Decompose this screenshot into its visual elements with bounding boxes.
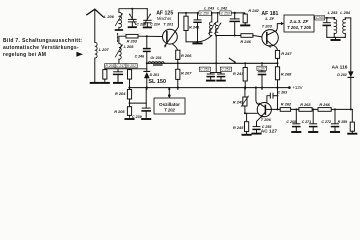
svg-text:2.u.3. ZF: 2.u.3. ZF xyxy=(289,19,309,24)
svg-text:L 208: L 208 xyxy=(124,44,135,49)
svg-text:regelung bei AM: regelung bei AM xyxy=(3,52,46,58)
svg-text:Bild 7. Schaltungsausschnitt:: Bild 7. Schaltungsausschnitt: xyxy=(3,38,82,44)
resistor R268 xyxy=(275,63,292,89)
ground (C252) xyxy=(207,80,215,82)
ground (R245) xyxy=(243,134,251,136)
wire R203 to T201 base xyxy=(138,35,163,37)
svg-text:L 253: L 253 xyxy=(328,10,339,15)
ground (C253 lower) xyxy=(217,80,225,82)
svg-text:C 272: C 272 xyxy=(321,120,331,124)
node L243/rail xyxy=(211,12,213,14)
capacitor C224 (variable) xyxy=(144,9,160,27)
svg-text:R 242: R 242 xyxy=(248,8,259,13)
svg-text:R 204: R 204 xyxy=(115,91,126,96)
svg-text:C 263: C 263 xyxy=(278,91,288,95)
svg-text:AC 127: AC 127 xyxy=(261,129,278,135)
label box R201 xyxy=(105,64,115,69)
resistor R266 xyxy=(318,102,331,111)
svg-text:C 224: C 224 xyxy=(150,23,160,27)
node C263/column xyxy=(277,95,279,97)
inductor L207 xyxy=(95,42,110,58)
node secondary tap xyxy=(215,35,217,37)
capacitor C263 xyxy=(270,91,287,99)
svg-text:R 205: R 205 xyxy=(114,109,125,114)
node C253/base line xyxy=(234,35,236,37)
transistor T201 xyxy=(156,10,177,47)
wire T201 collector up xyxy=(176,13,178,30)
ground (IF output) xyxy=(331,37,339,40)
wire T206 upper-left feed xyxy=(256,88,259,105)
svg-text:T 204, T 205: T 204, T 205 xyxy=(287,25,311,30)
wire tap down to C252/C253 xyxy=(215,36,217,73)
ground (antenna coil) xyxy=(91,82,99,84)
IF transformer L254 xyxy=(340,10,351,37)
capacitor C209 (variable) xyxy=(128,9,146,27)
label box C253b xyxy=(220,67,231,72)
svg-text:R 201: R 201 xyxy=(105,64,114,68)
node column/output rail xyxy=(277,108,279,110)
label box C217 xyxy=(115,64,126,69)
svg-text:R 263: R 263 xyxy=(300,102,311,107)
svg-text:SL 150: SL 150 xyxy=(148,79,166,85)
diode D202 xyxy=(332,64,354,109)
svg-text:C 253: C 253 xyxy=(221,68,230,72)
capacitor C239 xyxy=(132,103,150,119)
wire L208 to C217 xyxy=(118,59,120,63)
wire C252/C253 tops xyxy=(211,72,221,74)
resistor R245 xyxy=(233,113,249,133)
ZF block box xyxy=(284,15,314,32)
wire D201 column xyxy=(146,63,148,71)
node R268/supply rail xyxy=(276,87,278,89)
node base junction xyxy=(146,35,148,37)
junction dot C209/rail xyxy=(131,8,133,10)
svg-text:R 246: R 246 xyxy=(240,39,251,44)
svg-text:C 252: C 252 xyxy=(200,68,209,72)
ground (C255) xyxy=(252,133,260,135)
wire R241 bottom to ground node xyxy=(186,41,198,43)
ground (IF node) xyxy=(193,41,201,44)
IF transformer L253 xyxy=(328,10,339,37)
capacitor C253 top (tank) xyxy=(230,13,239,36)
svg-text:Oszillator: Oszillator xyxy=(159,102,180,107)
wire R202 down to supply rail xyxy=(129,79,131,89)
resistor R263 xyxy=(299,102,312,111)
capacitor C271 xyxy=(302,108,317,130)
resistor R201 xyxy=(103,69,107,82)
svg-text:C 217: C 217 xyxy=(116,64,125,68)
capacitor C265 xyxy=(323,18,330,38)
label box R202 xyxy=(126,64,137,69)
resistor R259 xyxy=(338,109,355,132)
label box C265 xyxy=(315,16,325,20)
svg-text:R 243: R 243 xyxy=(233,71,244,76)
wire R249 to T206 base xyxy=(245,112,257,114)
resistor R207 xyxy=(176,63,193,89)
node R202/rail xyxy=(128,87,130,89)
ground (R242) xyxy=(241,24,249,26)
node emitter/AGC end xyxy=(277,62,279,64)
resistor R262 xyxy=(280,101,292,111)
wire T203 collector xyxy=(276,24,281,31)
svg-text:L 242: L 242 xyxy=(217,6,228,11)
coupling coil Gr201 xyxy=(148,56,164,65)
svg-text:C 250: C 250 xyxy=(200,12,209,16)
transistor T206 xyxy=(257,103,277,135)
svg-text:D 202: D 202 xyxy=(337,73,347,77)
resistor R206 xyxy=(176,50,193,63)
wire bias rail xyxy=(105,68,147,70)
node xyxy=(129,102,131,104)
wire R268 node down to output rail xyxy=(277,88,279,110)
wire oscillator box to rail xyxy=(168,88,170,98)
wire L242 bottom / base line T203 xyxy=(218,35,241,37)
node R249/rail xyxy=(244,87,246,89)
ground (C209) xyxy=(129,26,136,28)
wire T203 emitter xyxy=(272,45,277,50)
IF transformer L242 (variable) xyxy=(215,6,228,36)
wire transformer bottoms xyxy=(327,36,346,38)
wire down to C239 top xyxy=(145,88,147,104)
resistor R202 xyxy=(128,69,132,79)
svg-text:R 247: R 247 xyxy=(281,51,292,56)
node D201/supply rail xyxy=(146,87,148,89)
node C267/supply rail xyxy=(261,87,263,89)
collector rail T201 xyxy=(178,12,244,14)
AGC line xyxy=(147,62,278,64)
capacitor C272 xyxy=(321,108,338,130)
svg-text:C 246: C 246 xyxy=(135,54,146,58)
ground (C271) xyxy=(309,131,317,133)
capacitor C217 xyxy=(114,69,123,82)
IF transformer L243 (variable) xyxy=(204,6,215,36)
resistor R247 xyxy=(275,50,292,63)
svg-text:R 268: R 268 xyxy=(281,71,292,76)
svg-text:AA 116: AA 116 xyxy=(332,64,348,70)
gang dashed link xyxy=(117,34,119,43)
wire ZF box output xyxy=(314,17,334,19)
capacitor C255 xyxy=(253,125,272,133)
node detector/output rail xyxy=(350,108,352,110)
node base/R245 xyxy=(244,112,246,114)
node C265/rail xyxy=(326,17,328,19)
node xyxy=(168,88,170,90)
antenna xyxy=(87,9,104,42)
wire top rail antenna tank xyxy=(119,9,147,13)
resistor R249 (variable) xyxy=(233,88,249,114)
ground (C239) xyxy=(142,118,150,120)
capacitor C253 lower xyxy=(218,73,225,80)
svg-text:C 239: C 239 xyxy=(132,115,142,119)
wire L243 bottom to ground node xyxy=(198,36,212,42)
svg-text:D 201: D 201 xyxy=(150,73,160,77)
node R243/supply rail xyxy=(244,87,246,89)
node emitter/AGC xyxy=(177,62,179,64)
svg-text:T 201: T 201 xyxy=(163,22,173,27)
svg-text:Mischer: Mischer xyxy=(157,16,172,21)
svg-text:R 262: R 262 xyxy=(281,101,292,106)
resistor R204 xyxy=(115,90,132,107)
label box C267 xyxy=(257,63,267,70)
wire detector column xyxy=(345,18,351,71)
node xyxy=(255,87,257,89)
node L242/rail xyxy=(217,12,219,14)
wire emitter to C255 xyxy=(257,116,262,126)
ground (R205) xyxy=(125,118,133,120)
ground (C217) xyxy=(114,82,122,84)
svg-text:C 255: C 255 xyxy=(262,125,273,129)
wire collector to C263 xyxy=(265,96,271,110)
svg-text:C 268: C 268 xyxy=(286,120,296,124)
svg-text:C 253: C 253 xyxy=(221,12,230,16)
label box C252 xyxy=(199,67,210,72)
svg-text:R 266: R 266 xyxy=(319,102,330,107)
transistor T203 xyxy=(261,11,278,49)
svg-text:R 249: R 249 xyxy=(233,100,244,105)
capacitor C246 xyxy=(135,49,150,64)
wire base node down through C246 xyxy=(146,36,148,48)
terminal +13V xyxy=(288,85,303,90)
svg-text:L 206: L 206 xyxy=(104,14,115,19)
ground (R201) xyxy=(101,82,109,84)
resistor R242 xyxy=(243,8,260,24)
inductor L208 (variable) xyxy=(115,44,134,60)
resistor R241 xyxy=(184,13,199,42)
diode D201 xyxy=(144,71,166,89)
resistor R243 xyxy=(233,63,247,89)
arrow into ZF box xyxy=(281,22,284,25)
svg-text:L 254: L 254 xyxy=(340,10,351,15)
resistor R205 xyxy=(114,107,131,118)
svg-text:L 207: L 207 xyxy=(99,47,110,52)
svg-text:C265: C265 xyxy=(316,16,324,20)
node C267/AGC xyxy=(261,62,263,64)
AGC pointer arrow xyxy=(229,58,236,63)
caption arrow pointer xyxy=(76,52,83,57)
svg-text:R 207: R 207 xyxy=(181,71,192,76)
ground (C224) xyxy=(144,26,151,28)
node L253/rail xyxy=(333,17,335,19)
output rail xyxy=(271,108,352,110)
svg-text:R 202: R 202 xyxy=(127,64,136,68)
svg-text:1. ZF: 1. ZF xyxy=(265,16,275,21)
supply rail +13V xyxy=(130,87,289,89)
resistor R203 xyxy=(126,34,138,43)
wire L207 to ground xyxy=(94,58,96,82)
oscillator box T202 xyxy=(154,98,185,114)
label box C253 top xyxy=(220,11,231,16)
label box C250 xyxy=(199,11,211,16)
inductor L206 (variable) xyxy=(104,12,123,27)
svg-text:R 206: R 206 xyxy=(181,53,192,58)
ground (C268) xyxy=(292,131,300,133)
svg-text:automatische Verstärkungs-: automatische Verstärkungs- xyxy=(3,45,79,51)
capacitor C267 xyxy=(259,70,266,89)
svg-text:T 202: T 202 xyxy=(164,108,175,113)
svg-text:R 259: R 259 xyxy=(338,120,348,124)
node R241/rail xyxy=(185,12,187,14)
wire T201 emitter down xyxy=(173,44,178,50)
node C253/rail xyxy=(234,12,236,14)
ground (C272) xyxy=(331,131,339,133)
svg-text:T 206: T 206 xyxy=(261,117,272,122)
svg-text:T 203: T 203 xyxy=(262,23,273,28)
svg-text:L 243: L 243 xyxy=(204,6,215,11)
svg-text:R 245: R 245 xyxy=(233,125,244,130)
node R243/AGC xyxy=(244,62,246,64)
node C250/rail xyxy=(197,12,199,14)
ground (R259) xyxy=(348,133,356,135)
capacitor C250 xyxy=(194,13,201,42)
node R207/supply rail xyxy=(177,87,179,89)
node tap/AGC crossing xyxy=(215,62,217,64)
svg-text:+13V: +13V xyxy=(292,85,302,90)
wire R204/R205 node to C239 xyxy=(130,102,147,104)
svg-text:C 271: C 271 xyxy=(302,120,312,124)
node AGC line left xyxy=(146,62,148,64)
wire R246 to T203 base xyxy=(253,36,262,37)
ground (L206) xyxy=(116,27,123,30)
svg-text:Gr 201: Gr 201 xyxy=(150,56,161,60)
capacitor C252 xyxy=(207,73,214,80)
capacitor C268 xyxy=(286,108,299,130)
wire L208 top to base line xyxy=(119,36,126,43)
caption text xyxy=(3,38,82,58)
resistor R246 xyxy=(240,34,253,44)
